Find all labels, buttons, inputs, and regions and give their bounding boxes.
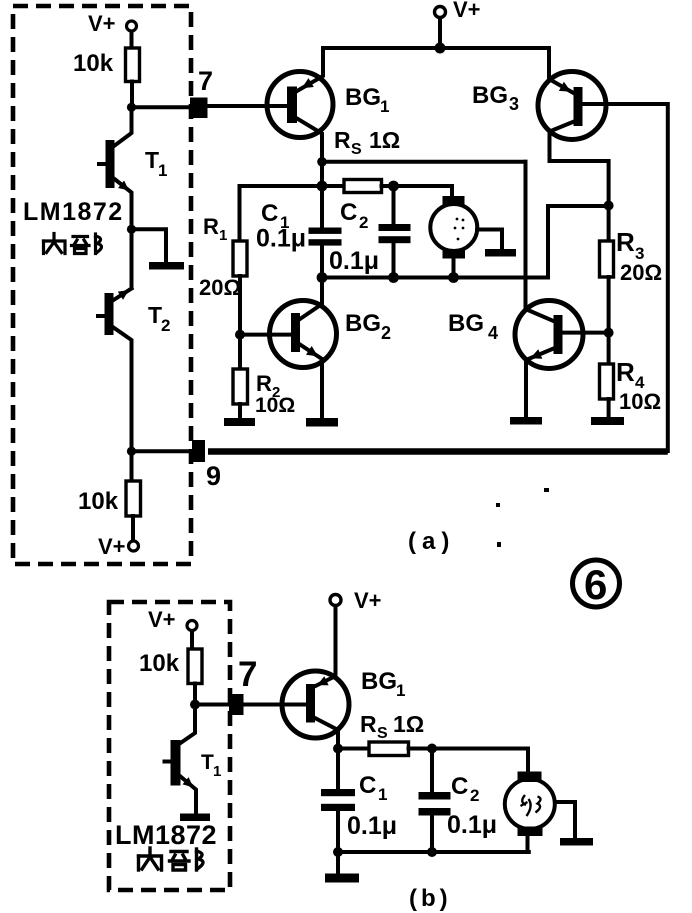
svg-text:C: C	[359, 772, 376, 799]
node BG2 collector junction	[317, 272, 328, 283]
capacitor C2 (b)	[419, 749, 498, 853]
motor M (circuit b)	[505, 772, 575, 853]
pin 7 pad	[190, 66, 213, 118]
figure number 6	[573, 560, 620, 608]
resistor R2	[233, 339, 295, 418]
transistor T1 (box A)	[99, 111, 167, 229]
svg-text:(a): (a)	[408, 528, 455, 555]
ground (R2)	[224, 418, 255, 426]
wire node to pin 9	[132, 449, 195, 453]
transistor BG1 (circuit b)	[282, 606, 405, 749]
svg-text:C: C	[340, 199, 357, 226]
wire pin7 to BG1 base	[209, 104, 288, 108]
wire rail to motor top	[394, 186, 453, 196]
node V+ terminal top-left (box A)	[88, 11, 137, 36]
ground (box A internal)	[149, 262, 184, 270]
svg-text:BG: BG	[361, 668, 397, 695]
svg-text:7: 7	[198, 66, 213, 96]
wire bottom rail (pin 9 net)	[208, 448, 668, 455]
LM1872 internal dashed box (circuit b)	[109, 602, 230, 890]
LM1872 internal dashed box (circuit a)	[13, 6, 191, 564]
node junction (pin7 node)	[127, 103, 136, 112]
svg-text:2: 2	[161, 316, 170, 335]
label Rs 1Ohm (circuit a)	[334, 127, 400, 158]
svg-text:S: S	[377, 725, 388, 742]
svg-text:R: R	[616, 357, 635, 387]
svg-text:3: 3	[509, 94, 519, 114]
node V+ terminal bottom (box A)	[98, 534, 139, 559]
wire node to pin 7	[132, 105, 193, 109]
node C2 bottom junction (b)	[427, 847, 437, 857]
svg-text:0.1μ: 0.1μ	[347, 812, 397, 840]
node V+ terminal top (circuit a)	[435, 0, 481, 22]
svg-text:6: 6	[584, 561, 607, 608]
wire base node to BG2	[240, 333, 292, 337]
svg-text:1Ω: 1Ω	[369, 127, 400, 153]
wire cap rail to R1	[240, 186, 323, 241]
node R1-R2-BG2 base junction	[235, 330, 245, 340]
wire inner box top	[322, 160, 526, 164]
resistor 10k (top, box A)	[73, 48, 140, 82]
svg-text:20Ω: 20Ω	[620, 260, 662, 285]
ground (motor a)	[485, 249, 516, 257]
svg-text:BG: BG	[472, 82, 508, 109]
capacitor C1 (b)	[321, 749, 397, 853]
wire node to pin7 (b)	[195, 703, 229, 707]
svg-text:10Ω: 10Ω	[255, 394, 295, 417]
ground (motor b)	[560, 838, 593, 846]
label Rs 1Ohm (circuit b)	[360, 711, 424, 742]
resistor Rs (circuit a, horizontal)	[322, 180, 394, 193]
svg-text:7: 7	[238, 655, 257, 694]
transistor BG2	[270, 278, 392, 419]
svg-text:1: 1	[380, 97, 389, 116]
svg-text:0.1μ: 0.1μ	[256, 225, 306, 253]
svg-text:V+: V+	[354, 588, 382, 613]
node BG1 emitter junction	[317, 157, 327, 167]
label LM1872 (box B)	[115, 820, 217, 850]
svg-text:1Ω: 1Ω	[393, 711, 424, 737]
svg-text:9: 9	[206, 461, 221, 491]
capacitor C2	[329, 186, 411, 278]
resistor 10k (bottom, box A)	[78, 455, 141, 541]
wire to internal ground	[132, 229, 167, 262]
svg-text:R: R	[616, 227, 635, 257]
wire bottom rail (b)	[338, 850, 529, 854]
svg-text:2: 2	[470, 786, 479, 805]
wire cap bottom rail	[322, 206, 609, 278]
resistor R3	[600, 206, 663, 333]
svg-text:R: R	[203, 214, 219, 239]
svg-text:BG: BG	[345, 310, 381, 337]
svg-text:T: T	[148, 302, 162, 328]
node pin9 junction	[127, 447, 136, 456]
resistor R4	[600, 337, 662, 417]
ground (BG4)	[510, 417, 542, 425]
wire T1 to T2	[130, 233, 134, 288]
svg-text:10k: 10k	[139, 650, 180, 677]
svg-text:20Ω: 20Ω	[199, 275, 241, 300]
svg-text:1: 1	[219, 227, 227, 244]
transistor T2 (box A)	[98, 289, 170, 452]
svg-text:1: 1	[378, 785, 387, 804]
node T1 emitter junction	[127, 225, 136, 234]
wire rail to motor (b)	[432, 749, 528, 772]
svg-text:(b): (b)	[409, 885, 452, 912]
svg-text:V+: V+	[453, 0, 481, 22]
node R3 top junction	[604, 201, 614, 211]
svg-text:4: 4	[488, 323, 498, 343]
svg-text:1: 1	[158, 161, 167, 180]
svg-text:V+: V+	[88, 11, 116, 36]
svg-text:2: 2	[381, 323, 391, 343]
resistor Rs (circuit b, horizontal)	[338, 742, 432, 756]
transistor BG1	[267, 48, 389, 162]
transistor T1 (box B)	[165, 709, 222, 813]
wire V+ to 10k	[130, 32, 134, 49]
node cap rail left junction	[317, 181, 328, 192]
pin 9 pad	[192, 440, 221, 491]
node BG1 emitter junction (b)	[333, 744, 343, 754]
node C1 bottom junction (b)	[333, 847, 343, 857]
label LM1872 (box A)	[23, 198, 124, 226]
svg-text:LM1872: LM1872	[23, 198, 124, 226]
wire V+ rail	[323, 46, 549, 50]
wire to ground (b)	[336, 852, 340, 872]
node C2 bottom junction	[388, 272, 399, 283]
ground (BG2)	[306, 418, 338, 427]
svg-text:10k: 10k	[73, 50, 114, 77]
svg-text:C: C	[261, 200, 278, 227]
svg-text:S: S	[351, 141, 362, 158]
node V+ terminal (circuit b)	[330, 588, 382, 613]
svg-text:R: R	[256, 371, 272, 396]
wire 10k to node	[130, 82, 134, 108]
svg-text:BG: BG	[345, 84, 381, 111]
wire R1 to base node	[238, 276, 242, 335]
svg-text:10Ω: 10Ω	[619, 389, 661, 414]
svg-text:V+: V+	[98, 534, 126, 559]
label (b)	[409, 885, 452, 912]
speck marks	[496, 488, 549, 547]
node V+ rail junction	[435, 43, 446, 54]
motor M (circuit a)	[430, 196, 502, 278]
svg-text:R: R	[360, 711, 377, 737]
capacitor C1	[256, 186, 342, 278]
wire BG3 base to right edge	[583, 104, 668, 451]
wire V+ down to rail	[438, 18, 442, 48]
label 内部 (box A)	[44, 234, 102, 254]
ground (circuit b left)	[325, 874, 359, 883]
pin 7 pad (b)	[229, 655, 257, 715]
node V+ terminal (box B)	[148, 607, 197, 632]
resistor 10k (box B)	[139, 631, 202, 704]
label (a)	[408, 528, 455, 555]
wire pin7 to BG1 base (b)	[244, 703, 308, 707]
node Rs right junction	[388, 181, 399, 192]
node Rs right junction (b)	[427, 744, 437, 754]
svg-text:2: 2	[359, 213, 368, 232]
svg-text:1: 1	[213, 763, 221, 780]
svg-text:LM1872: LM1872	[115, 820, 217, 850]
resistor R1	[199, 214, 247, 300]
svg-text:0.1μ: 0.1μ	[329, 247, 379, 275]
svg-text:R: R	[334, 127, 351, 153]
label 内部 (box B)	[139, 848, 204, 870]
node motor bottom junction	[448, 272, 459, 283]
svg-text:T: T	[145, 147, 159, 173]
svg-text:V+: V+	[148, 607, 176, 632]
node pin7 junction (b)	[190, 700, 200, 710]
transistor BG4	[448, 162, 609, 417]
svg-text:1: 1	[396, 681, 405, 700]
transistor BG3	[472, 48, 609, 205]
svg-text:10k: 10k	[78, 488, 119, 515]
node BG4 base junction	[604, 328, 614, 338]
svg-text:0.1μ: 0.1μ	[447, 811, 497, 839]
ground (R4)	[591, 417, 624, 425]
svg-text:C: C	[451, 773, 468, 800]
wire BG1 emitter to cap rail	[320, 162, 324, 186]
ground (T1 box B)	[180, 814, 210, 822]
svg-text:BG: BG	[448, 310, 484, 337]
